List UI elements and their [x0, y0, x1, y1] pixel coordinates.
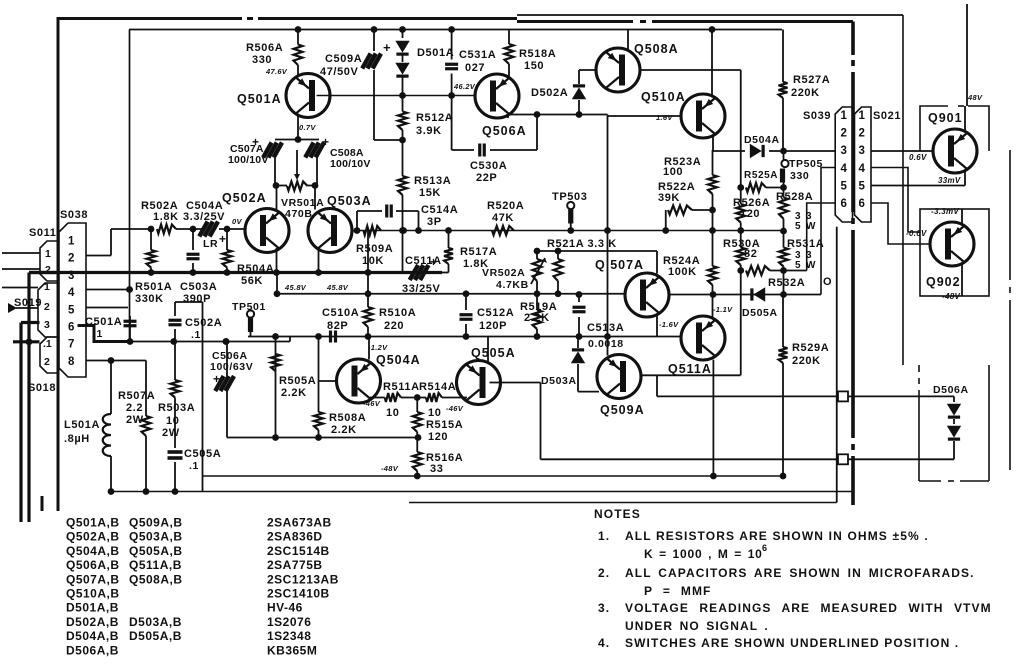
- svg-text:1: 1: [45, 248, 51, 260]
- svg-text:120P: 120P: [479, 320, 507, 332]
- svg-text:Q502A,B: Q502A,B: [66, 530, 120, 544]
- svg-text:D502A: D502A: [531, 87, 568, 99]
- svg-text:0.7V: 0.7V: [299, 123, 316, 132]
- svg-text:6: 6: [859, 198, 865, 210]
- svg-text:S018: S018: [28, 382, 56, 394]
- svg-text:47/50V: 47/50V: [320, 66, 359, 78]
- svg-text:SWITCHES ARE SHOWN UNDERLIN: SWITCHES ARE SHOWN UNDERLINED POSITION .: [625, 636, 959, 650]
- svg-text:3: 3: [859, 145, 865, 157]
- svg-text:-46V: -46V: [363, 399, 381, 408]
- svg-text:Q509A,B: Q509A,B: [129, 516, 183, 530]
- svg-text:C505A: C505A: [184, 448, 221, 460]
- svg-text:3P: 3P: [427, 216, 442, 228]
- svg-text:4: 4: [841, 163, 848, 175]
- svg-text:ALL RESISTORS ARE SHOWN IN: ALL RESISTORS ARE SHOWN IN OHMS ±5% .: [625, 529, 929, 543]
- svg-text:TP505: TP505: [789, 158, 823, 170]
- svg-text:10: 10: [166, 415, 179, 427]
- svg-text:3.9K: 3.9K: [416, 125, 442, 137]
- svg-text:2SA673AB: 2SA673AB: [267, 516, 332, 530]
- svg-text:C509A: C509A: [325, 53, 362, 65]
- svg-text:C502A: C502A: [185, 317, 222, 329]
- svg-text:100/10V: 100/10V: [228, 154, 269, 166]
- svg-text:S011: S011: [29, 227, 56, 239]
- svg-text:R531A: R531A: [787, 238, 824, 250]
- svg-text:.1: .1: [93, 328, 103, 340]
- svg-text:2.2K: 2.2K: [331, 424, 357, 436]
- svg-text:Q 507A: Q 507A: [595, 258, 644, 272]
- svg-text:120: 120: [428, 431, 448, 443]
- svg-text:R525A: R525A: [744, 170, 778, 181]
- svg-text:LR: LR: [203, 238, 218, 250]
- svg-text:100K: 100K: [668, 266, 697, 278]
- svg-text:1S2076: 1S2076: [267, 615, 311, 629]
- svg-text:R528A: R528A: [776, 191, 813, 203]
- svg-text:6: 6: [762, 543, 767, 553]
- svg-text:D501A: D501A: [417, 47, 454, 59]
- svg-text:5: 5: [859, 180, 866, 192]
- svg-text:1: 1: [841, 110, 848, 122]
- svg-text:C501A: C501A: [85, 316, 122, 328]
- svg-text:1.8K: 1.8K: [153, 211, 179, 223]
- svg-text:33mV: 33mV: [938, 176, 961, 185]
- svg-text:C531A: C531A: [459, 49, 496, 61]
- svg-text:10K: 10K: [362, 255, 384, 267]
- svg-text:R532A: R532A: [768, 277, 805, 289]
- svg-text:R517A: R517A: [460, 246, 497, 258]
- svg-text:220: 220: [384, 320, 404, 332]
- svg-text:470B: 470B: [285, 208, 313, 220]
- svg-text:10: 10: [386, 407, 399, 419]
- svg-text:R505A: R505A: [279, 375, 316, 387]
- svg-text:VOLTAGE READINGS ARE MEASUR: VOLTAGE READINGS ARE MEASURED WITH VTVM: [625, 601, 992, 615]
- svg-text:W: W: [806, 260, 816, 271]
- svg-text:Q507A,B: Q507A,B: [66, 572, 120, 586]
- svg-text:Q510A,B: Q510A,B: [66, 587, 120, 601]
- svg-text:1: 1: [859, 110, 866, 122]
- svg-text:47.6V: 47.6V: [265, 67, 288, 76]
- svg-text:D503A,B: D503A,B: [129, 615, 182, 629]
- svg-text:3: 3: [44, 319, 50, 331]
- svg-text:5: 5: [68, 304, 75, 316]
- svg-text:.1: .1: [189, 460, 199, 472]
- svg-text:R515A: R515A: [426, 419, 463, 431]
- svg-text:Q501A: Q501A: [237, 92, 282, 106]
- svg-text:1.: 1.: [598, 529, 610, 543]
- svg-text:5: 5: [795, 260, 801, 271]
- svg-text:8: 8: [68, 356, 75, 368]
- svg-text:027: 027: [465, 62, 485, 74]
- svg-text:2SA775B: 2SA775B: [267, 558, 323, 572]
- svg-text:2SC1410B: 2SC1410B: [267, 587, 330, 601]
- svg-text:D501A,B: D501A,B: [66, 601, 119, 615]
- svg-text:220K: 220K: [791, 87, 820, 99]
- svg-text:1: 1: [44, 281, 50, 293]
- svg-text:Q901: Q901: [928, 111, 963, 125]
- svg-text:D504A: D504A: [744, 134, 780, 146]
- svg-text:1.6V: 1.6V: [656, 113, 673, 122]
- svg-text:R501A: R501A: [135, 281, 172, 293]
- svg-text:D505A,B: D505A,B: [129, 629, 182, 643]
- svg-text:150: 150: [524, 60, 544, 72]
- svg-text:VR502A: VR502A: [482, 267, 525, 279]
- svg-text:D502A,B: D502A,B: [66, 615, 119, 629]
- svg-text:2: 2: [859, 128, 865, 140]
- svg-text:2SC1213AB: 2SC1213AB: [267, 572, 339, 586]
- svg-text:3: 3: [68, 270, 74, 282]
- svg-text:P = MMF: P = MMF: [644, 584, 712, 598]
- svg-text:5: 5: [795, 221, 801, 232]
- svg-text:46.2V: 46.2V: [453, 82, 476, 91]
- svg-text:-3.3mV: -3.3mV: [931, 207, 959, 216]
- svg-text:R514A: R514A: [419, 381, 456, 393]
- svg-text:C512A: C512A: [477, 307, 514, 319]
- svg-text:2.2K: 2.2K: [524, 312, 550, 324]
- svg-text:S019: S019: [14, 297, 42, 309]
- svg-text:R518A: R518A: [519, 48, 556, 60]
- svg-text:45.8V: 45.8V: [284, 283, 307, 292]
- svg-text:+: +: [430, 255, 438, 269]
- svg-text:0V: 0V: [232, 217, 242, 226]
- svg-text:2: 2: [44, 356, 50, 368]
- svg-text:33: 33: [430, 463, 443, 475]
- svg-text:39K: 39K: [658, 192, 680, 204]
- svg-text:L501A: L501A: [64, 419, 100, 431]
- svg-text:R507A: R507A: [118, 390, 155, 402]
- svg-text:TP501: TP501: [232, 301, 266, 313]
- svg-text:Q508A: Q508A: [634, 42, 679, 56]
- svg-text:82P: 82P: [327, 320, 348, 332]
- svg-text:2W: 2W: [162, 427, 180, 439]
- svg-text:Q501A,B: Q501A,B: [66, 516, 120, 530]
- svg-text:Q511A,B: Q511A,B: [129, 558, 182, 572]
- svg-text:220K: 220K: [792, 355, 821, 367]
- svg-text:2W: 2W: [126, 414, 144, 426]
- svg-text:D503A: D503A: [541, 375, 577, 387]
- svg-text:4.: 4.: [598, 636, 610, 650]
- svg-text:C530A: C530A: [470, 160, 507, 172]
- svg-text:D506A,B: D506A,B: [66, 643, 119, 657]
- svg-text:22P: 22P: [476, 172, 497, 184]
- svg-text:+: +: [219, 232, 227, 246]
- svg-text:6: 6: [841, 198, 847, 210]
- svg-text:3.: 3.: [598, 601, 610, 615]
- svg-text:33/25V: 33/25V: [402, 283, 441, 295]
- svg-text:Q504A: Q504A: [376, 353, 421, 367]
- svg-text:330K: 330K: [135, 293, 164, 305]
- svg-text:1S2348: 1S2348: [267, 629, 311, 643]
- svg-text:Q503A: Q503A: [327, 194, 372, 208]
- svg-text:330: 330: [790, 170, 809, 182]
- svg-text:2.2K: 2.2K: [281, 387, 307, 399]
- svg-text:S039: S039: [803, 110, 831, 122]
- svg-text:-0.6V: -0.6V: [906, 229, 927, 238]
- svg-text:Q503A,B: Q503A,B: [129, 530, 183, 544]
- svg-text:Q504A,B: Q504A,B: [66, 544, 120, 558]
- svg-text:R509A: R509A: [356, 243, 393, 255]
- svg-text:R512A: R512A: [416, 112, 453, 124]
- svg-text:D506A: D506A: [933, 384, 969, 396]
- svg-text:82: 82: [744, 248, 757, 260]
- svg-text:R521A 3.3 K: R521A 3.3 K: [547, 238, 617, 250]
- svg-text:45.8V: 45.8V: [326, 283, 349, 292]
- svg-text:Q902: Q902: [926, 275, 961, 289]
- svg-text:R503A: R503A: [158, 402, 195, 414]
- svg-text:Q505A,B: Q505A,B: [129, 544, 183, 558]
- svg-text:5: 5: [841, 180, 848, 192]
- svg-text:47K: 47K: [492, 212, 514, 224]
- svg-text:48V: 48V: [967, 93, 983, 102]
- svg-text:S038: S038: [60, 209, 88, 221]
- svg-text:C513A: C513A: [587, 322, 624, 334]
- svg-text:-1.2V: -1.2V: [368, 343, 388, 352]
- svg-text:0.6V: 0.6V: [909, 153, 927, 162]
- svg-text:2.: 2.: [598, 566, 610, 580]
- svg-text:Q506A,B: Q506A,B: [66, 558, 120, 572]
- svg-text:W: W: [806, 221, 816, 232]
- svg-text:D504A,B: D504A,B: [66, 629, 119, 643]
- svg-text:R529A: R529A: [792, 342, 829, 354]
- svg-text:10: 10: [428, 407, 441, 419]
- svg-text:-48V: -48V: [942, 292, 960, 301]
- svg-text:K = 1000 , M = 10: K = 1000 , M = 10: [644, 547, 763, 561]
- svg-text:56K: 56K: [241, 275, 263, 287]
- svg-text:3: 3: [841, 145, 847, 157]
- svg-text:D505A: D505A: [742, 307, 778, 319]
- svg-text:+: +: [213, 372, 221, 386]
- svg-text:UNDER NO SIGNAL .: UNDER NO SIGNAL .: [625, 619, 769, 633]
- svg-text:Q502A: Q502A: [222, 191, 267, 205]
- svg-text:4.7KB: 4.7KB: [496, 279, 529, 291]
- svg-text:4: 4: [68, 287, 75, 299]
- svg-text:O: O: [823, 276, 832, 288]
- svg-text:Q505A: Q505A: [471, 346, 516, 360]
- svg-text:R513A: R513A: [414, 175, 451, 187]
- svg-text:TP503: TP503: [552, 191, 587, 203]
- svg-text:330: 330: [252, 54, 272, 66]
- svg-text:0.0018: 0.0018: [588, 338, 624, 350]
- svg-text:Q508A,B: Q508A,B: [129, 572, 183, 586]
- svg-text:Q510A: Q510A: [641, 90, 686, 104]
- svg-text:390P: 390P: [183, 293, 211, 305]
- svg-text:-1.1V: -1.1V: [713, 305, 733, 314]
- svg-text:6: 6: [68, 322, 74, 334]
- svg-text:Q511A: Q511A: [668, 362, 712, 376]
- svg-text:100/10V: 100/10V: [330, 158, 371, 170]
- svg-text:R504A: R504A: [237, 263, 274, 275]
- svg-text:1: 1: [68, 236, 75, 248]
- svg-text:C514A: C514A: [421, 204, 458, 216]
- svg-text:HV-46: HV-46: [267, 601, 303, 615]
- svg-text:-1.6V: -1.6V: [659, 320, 679, 329]
- svg-text:120: 120: [740, 208, 760, 220]
- svg-text:R510A: R510A: [379, 307, 416, 319]
- svg-text:+: +: [322, 135, 330, 149]
- svg-text:R506A: R506A: [246, 42, 283, 54]
- svg-text:R511A: R511A: [383, 381, 420, 393]
- svg-text:-48V: -48V: [381, 464, 399, 473]
- svg-text:R527A: R527A: [793, 74, 830, 86]
- svg-text:2: 2: [841, 128, 847, 140]
- svg-text:2: 2: [44, 301, 50, 313]
- svg-text:R508A: R508A: [329, 412, 366, 424]
- svg-text:KB365M: KB365M: [267, 643, 317, 657]
- svg-text:.8µH: .8µH: [64, 433, 90, 445]
- svg-text:3.3/25V: 3.3/25V: [183, 211, 225, 223]
- svg-text:.1: .1: [43, 338, 52, 350]
- svg-text:-46V: -46V: [446, 404, 464, 413]
- svg-text:S021: S021: [873, 110, 901, 122]
- svg-text:C503A: C503A: [180, 281, 217, 293]
- svg-text:NOTES: NOTES: [594, 507, 641, 521]
- svg-text:.1: .1: [191, 329, 201, 341]
- svg-text:100: 100: [663, 166, 683, 178]
- svg-text:2.2: 2.2: [126, 402, 143, 414]
- svg-text:2: 2: [45, 264, 51, 276]
- svg-text:7: 7: [68, 339, 74, 351]
- svg-text:R520A: R520A: [487, 200, 524, 212]
- svg-text:2SA836D: 2SA836D: [267, 530, 323, 544]
- svg-text:+: +: [252, 135, 260, 149]
- svg-text:+: +: [383, 40, 391, 55]
- svg-text:Q506A: Q506A: [482, 124, 527, 138]
- svg-text:C510A: C510A: [322, 307, 359, 319]
- svg-text:4: 4: [859, 163, 866, 175]
- svg-text:ALL CAPACITORS ARE SHOWN I: ALL CAPACITORS ARE SHOWN IN MICROFARADS.: [625, 566, 975, 580]
- svg-text:Q509A: Q509A: [600, 403, 645, 417]
- svg-text:2SC1514B: 2SC1514B: [267, 544, 330, 558]
- svg-text:15K: 15K: [419, 187, 441, 199]
- svg-text:2: 2: [68, 253, 74, 265]
